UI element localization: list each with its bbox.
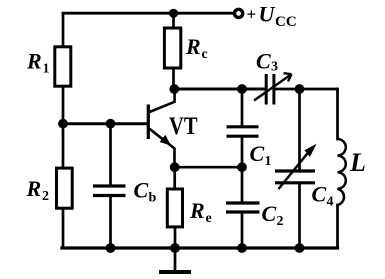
svg-text:+: + — [247, 5, 257, 24]
svg-text:CC: CC — [275, 14, 297, 30]
svg-text:2: 2 — [42, 189, 49, 204]
svg-text:b: b — [149, 191, 157, 206]
svg-text:R: R — [26, 176, 42, 201]
svg-text:C: C — [134, 178, 149, 203]
svg-text:C: C — [262, 201, 277, 226]
svg-text:e: e — [206, 211, 212, 226]
svg-text:R: R — [26, 49, 42, 74]
svg-text:4: 4 — [327, 195, 334, 210]
svg-text:C: C — [250, 141, 265, 166]
svg-text:L: L — [349, 148, 366, 177]
svg-text:R: R — [185, 34, 201, 59]
svg-text:1: 1 — [265, 154, 272, 169]
svg-text:3: 3 — [271, 60, 278, 75]
svg-text:VT: VT — [169, 113, 198, 140]
svg-text:C: C — [256, 49, 271, 74]
svg-text:U: U — [259, 1, 276, 26]
svg-text:1: 1 — [43, 62, 50, 77]
svg-text:2: 2 — [277, 214, 284, 229]
svg-text:R: R — [189, 198, 205, 223]
svg-text:C: C — [312, 182, 327, 207]
svg-text:c: c — [202, 47, 208, 62]
